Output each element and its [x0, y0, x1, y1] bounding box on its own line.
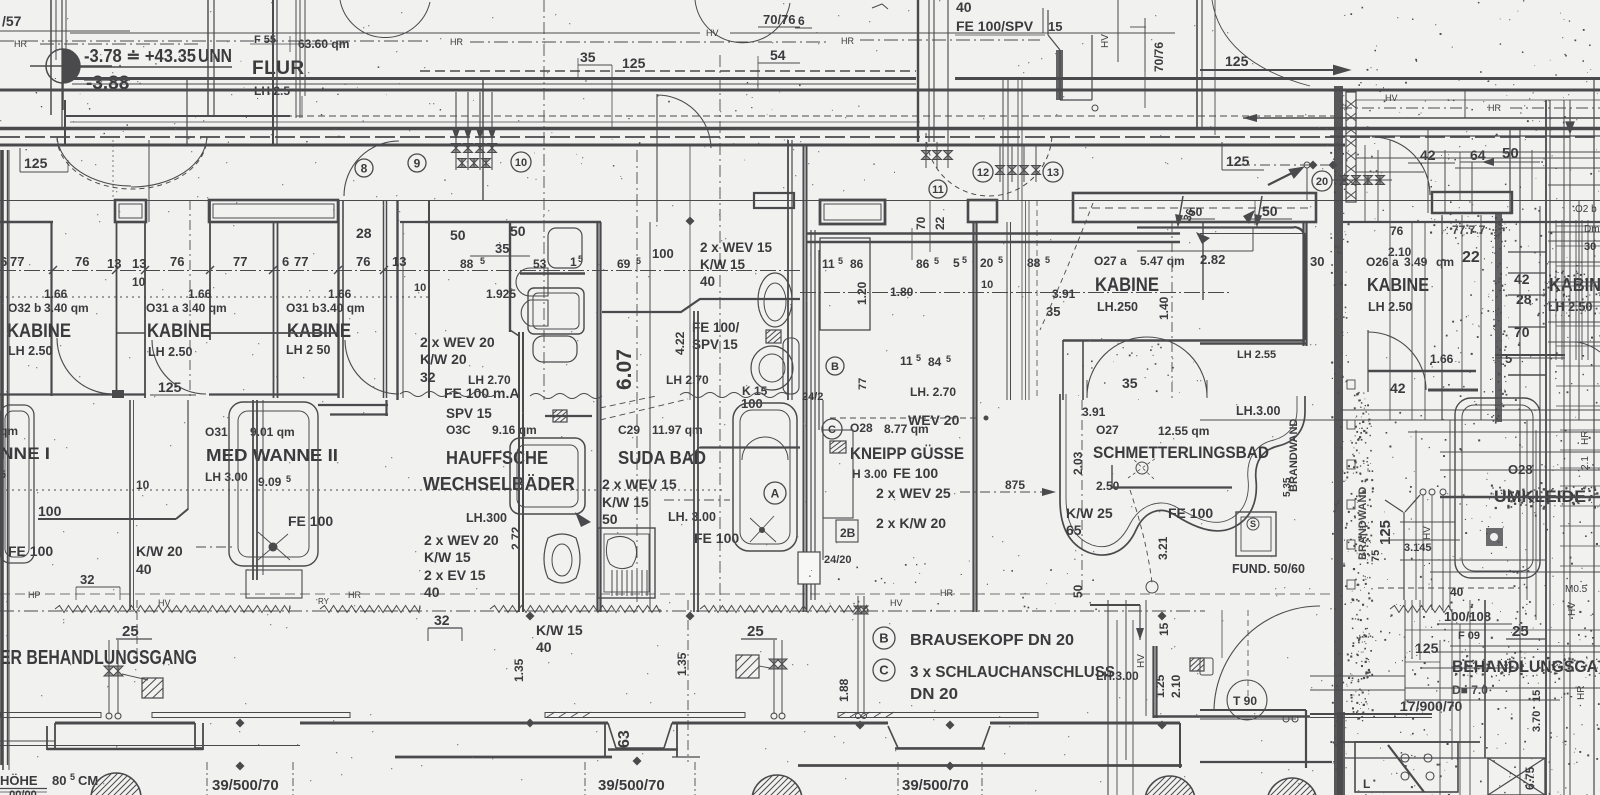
valve cluster x460 — [452, 144, 461, 153]
svg-text:LH.250: LH.250 — [1097, 300, 1138, 314]
svg-text:76: 76 — [170, 254, 184, 269]
thin lines bottom left — [0, 745, 300, 747]
svg-text:2.10: 2.10 — [1169, 674, 1183, 698]
svg-text:SPV 15: SPV 15 — [446, 406, 492, 421]
corridor north wall upper — [72, 77, 916, 80]
vertical x690 — [689, 145, 691, 400]
svg-text:WEV 20: WEV 20 — [908, 412, 960, 428]
dash y588 right — [1378, 587, 1520, 589]
hatch square M kneipp — [830, 441, 846, 453]
svg-text:B: B — [831, 361, 839, 373]
risers x1003-1022 — [1002, 78, 1004, 200]
wall line y200 — [0, 200, 1600, 202]
right wing mesh top2 — [1343, 221, 1600, 223]
svg-text:K/W 20: K/W 20 — [136, 543, 183, 559]
stub box far right — [1432, 192, 1512, 213]
shower grate — [611, 570, 613, 596]
door arc schmetterling — [1087, 337, 1207, 397]
riser x130 mid — [129, 400, 131, 610]
door arc corridor x657 — [657, 94, 711, 222]
svg-text:32: 32 — [80, 572, 94, 587]
svg-text:RY: RY — [318, 597, 330, 606]
svg-text:50: 50 — [1189, 205, 1203, 219]
svg-text:C: C — [879, 663, 889, 678]
svg-text:88: 88 — [460, 257, 474, 271]
shaft ref circle 12 — [973, 162, 993, 182]
wc hauffsche — [544, 534, 580, 583]
svg-text:10: 10 — [981, 279, 993, 291]
svg-text:35: 35 — [495, 241, 509, 256]
hatched column circles — [91, 773, 154, 795]
svg-text:O31 b: O31 b — [286, 301, 319, 315]
svg-text:qm: qm — [1436, 255, 1454, 269]
svg-text:2 x WEV 20: 2 x WEV 20 — [420, 334, 495, 350]
kabine mid walls below — [1063, 339, 1305, 341]
heavy joint segment left — [65, 115, 290, 117]
svg-text:125: 125 — [1377, 520, 1394, 545]
svg-text:3.91: 3.91 — [1052, 287, 1076, 301]
stub band kabine mid wide — [1073, 193, 1316, 222]
svg-text:88: 88 — [1027, 256, 1041, 270]
svg-text:K/W 15: K/W 15 — [602, 494, 649, 510]
corridor wall x597 — [596, 222, 598, 612]
pier x195 — [195, 723, 203, 750]
valve cluster x930 — [922, 151, 931, 160]
svg-text:125: 125 — [622, 55, 646, 71]
risers x1007 — [1006, 222, 1008, 400]
right wing mid speckle band — [1381, 401, 1600, 621]
svg-text:875: 875 — [1005, 478, 1025, 492]
partition pair x116 x145 — [116, 222, 118, 398]
partition pair x383 — [383, 200, 385, 398]
svg-text:12: 12 — [977, 167, 989, 179]
svg-text:C29: C29 — [618, 423, 640, 437]
svg-text:FE 100: FE 100 — [8, 543, 53, 559]
svg-text:64: 64 — [1470, 147, 1486, 163]
svg-text:50: 50 — [450, 227, 466, 243]
svg-text:3.40 qm: 3.40 qm — [320, 301, 365, 315]
svg-text:8: 8 — [361, 161, 368, 175]
svg-text:SCHMETTERLINGSBAD: SCHMETTERLINGSBAD — [1093, 444, 1269, 462]
kneipp west risers — [810, 230, 812, 600]
door arc right x1370 — [1372, 137, 1430, 195]
svg-text:M0.5: M0.5 — [1565, 584, 1588, 595]
svg-text:2.82: 2.82 — [1200, 252, 1225, 267]
wall x694 suda east — [693, 311, 695, 612]
svg-text:11: 11 — [900, 354, 913, 368]
pier x55 — [47, 723, 55, 750]
right wing extra verticals mid — [1415, 430, 1417, 600]
svg-text:76: 76 — [75, 254, 89, 269]
fund 50/60 box — [1236, 512, 1276, 556]
shaft ladder x1346 — [1346, 92, 1356, 202]
wechsel tub square — [510, 438, 585, 514]
svg-text:20: 20 — [1316, 176, 1328, 188]
wall riser pair left — [50, 0, 52, 115]
svg-text:70: 70 — [914, 216, 928, 230]
shaft ref circle 20 — [1312, 171, 1332, 191]
svg-text:2 x WEV 15: 2 x WEV 15 — [602, 476, 677, 492]
svg-text:HV: HV — [1422, 526, 1433, 540]
svg-text:2.72: 2.72 — [509, 526, 523, 550]
shaft wall x918 — [917, 0, 919, 142]
shaft ref circle 13 — [1043, 162, 1063, 182]
valves below x110 — [104, 666, 114, 676]
dim chain y270 kneipp — [800, 292, 1230, 294]
svg-text:5: 5 — [953, 256, 960, 270]
svg-text:KABINE: KABINE — [1367, 275, 1429, 295]
svg-text:9.16 qm: 9.16 qm — [492, 423, 537, 437]
kneipp row top wall double band — [806, 232, 1180, 234]
valves x775 — [769, 659, 779, 669]
svg-text:2 x WEV 25: 2 x WEV 25 — [876, 485, 951, 501]
svg-text:K/W 15: K/W 15 — [536, 622, 583, 638]
svg-text:5.47 qm: 5.47 qm — [1140, 254, 1185, 268]
dim chain line y270 — [0, 270, 400, 272]
shaft ref circle 8 — [355, 159, 373, 177]
svg-text:40: 40 — [424, 584, 440, 600]
svg-text:3.40 qm: 3.40 qm — [44, 301, 89, 315]
svg-text:FE 100/: FE 100/ — [692, 320, 740, 335]
lower wall line y765 — [798, 764, 1182, 767]
bottom right vertical cluster — [1107, 600, 1109, 795]
svg-text:FUND. 50/60: FUND. 50/60 — [1232, 562, 1305, 576]
svg-text:BRAUSEKOPF DN 20: BRAUSEKOPF DN 20 — [910, 632, 1074, 649]
svg-text:UNN: UNN — [198, 46, 232, 66]
svg-text:...00/00: ...00/00 — [0, 789, 37, 795]
svg-text:39/500/70: 39/500/70 — [212, 777, 279, 794]
svg-text:FE 100 m.A: FE 100 m.A — [444, 385, 519, 401]
svg-text:25: 25 — [1512, 623, 1529, 640]
svg-text:FE 100: FE 100 — [893, 465, 938, 481]
right wing tick x1465 — [1464, 90, 1466, 118]
partition x510 — [509, 222, 511, 332]
svg-text:K/W 15: K/W 15 — [424, 549, 471, 565]
riser pair x1197 — [1196, 0, 1198, 128]
dim line x1145 tail — [1144, 72, 1146, 108]
platform bottom right — [1200, 709, 1306, 711]
svg-text:40: 40 — [700, 274, 715, 289]
svg-text:O2 b: O2 b — [1575, 204, 1597, 215]
svg-text:1.66: 1.66 — [188, 287, 212, 301]
dashdot vertical x190 — [189, 200, 191, 400]
door arc far right — [1577, 342, 1600, 352]
dotted level line y297 — [0, 296, 430, 298]
svg-text:15: 15 — [1048, 19, 1062, 34]
svg-text:FE 100/SPV: FE 100/SPV — [956, 18, 1034, 34]
svg-text:70/76: 70/76 — [1152, 42, 1166, 72]
svg-text:3.21: 3.21 — [1156, 536, 1170, 560]
diag dashes bottom corridor — [600, 399, 688, 420]
svg-text:SUDA BAD: SUDA BAD — [618, 448, 706, 468]
washbasin pair x530 — [516, 268, 548, 296]
window sill hatched left part — [838, 712, 894, 717]
svg-text:80: 80 — [52, 773, 66, 788]
duct jog x1048 — [1048, 10, 1092, 100]
svg-text:BRANDWAND: BRANDWAND — [1357, 487, 1369, 560]
suda tub — [733, 403, 797, 551]
svg-text:HÖHE: HÖHE — [0, 773, 38, 788]
tub pipes vertical — [252, 400, 254, 580]
leader arrow to circle 20 — [1268, 168, 1302, 185]
svg-text:O27 a: O27 a — [1094, 254, 1127, 268]
shaft ref circle 11 — [929, 180, 947, 198]
svg-text:22: 22 — [1462, 249, 1480, 266]
shaft ref circle 10 — [511, 152, 531, 172]
dashdot vertical x544 — [543, 0, 545, 400]
corridor south wall mid — [0, 136, 1600, 138]
tub drain — [269, 543, 278, 552]
svg-text:FLUR: FLUR — [252, 58, 305, 79]
door arc corridor semicircle x990 dashed — [926, 133, 1052, 196]
svg-text:S: S — [1250, 519, 1256, 529]
svg-text:84: 84 — [928, 355, 942, 369]
svg-text:13: 13 — [107, 256, 121, 271]
x-cross box bottom right — [1488, 758, 1545, 795]
svg-text:125: 125 — [1415, 640, 1439, 656]
svg-text:54: 54 — [770, 47, 786, 63]
lower wall line y757 — [395, 756, 612, 759]
dividing dark wall x1339 brandwand — [1334, 86, 1343, 795]
pipe line HR top — [70, 32, 700, 34]
svg-text:1.40: 1.40 — [1157, 296, 1171, 320]
svg-text:30: 30 — [1584, 241, 1596, 253]
svg-text:HV: HV — [706, 28, 719, 38]
svg-text:2.03: 2.03 — [1071, 451, 1085, 475]
svg-text:53: 53 — [533, 257, 547, 271]
double door dashed arc corridor left — [57, 137, 207, 189]
svg-text:20: 20 — [980, 256, 994, 270]
tub small upper x548 — [548, 228, 582, 268]
kabine room bottom wall lines — [209, 332, 338, 334]
svg-text:28: 28 — [356, 225, 372, 241]
svg-text:L: L — [1363, 777, 1370, 791]
svg-text:6: 6 — [798, 14, 805, 28]
window sill rects — [0, 713, 101, 718]
svg-text:40: 40 — [536, 639, 552, 655]
y junction pipes right — [1385, 495, 1420, 600]
svg-text:LH. 3.00: LH. 3.00 — [668, 510, 716, 524]
riser cluster x208-300 top — [207, 0, 209, 116]
diamond nodes bottom — [236, 719, 245, 728]
dim line 100 heavy — [38, 518, 176, 520]
svg-text:2 x WEV 15: 2 x WEV 15 — [700, 240, 773, 255]
heavy shelf y273 — [520, 272, 585, 275]
svg-text:KABINE: KABINE — [7, 321, 71, 342]
dashed leader pool — [1130, 490, 1152, 583]
partition x51 — [50, 222, 52, 396]
door arcs KABINE rooms lower — [57, 338, 113, 394]
circle B ref — [826, 357, 844, 375]
svg-text:2 x K/W 20: 2 x K/W 20 — [876, 515, 946, 531]
right wing tub — [1455, 398, 1540, 578]
svg-text:5: 5 — [70, 772, 75, 782]
pipe line HR dashdot — [0, 40, 430, 42]
svg-text:WECHSELBÄDER: WECHSELBÄDER — [423, 474, 575, 494]
svg-text:HV: HV — [158, 598, 171, 608]
shaft ref circle 9 — [408, 154, 426, 172]
svg-text:5: 5 — [934, 256, 939, 266]
pipe pair x858 with circles — [857, 596, 859, 714]
door arc bottom right big — [1214, 606, 1320, 710]
benchmark level symbol — [30, 49, 112, 110]
svg-text:LH.3.00: LH.3.00 — [1236, 404, 1281, 418]
dark wall right bottom — [1337, 712, 1345, 795]
svg-text:3.91: 3.91 — [1082, 405, 1106, 419]
svg-text:6.07: 6.07 — [613, 349, 636, 390]
svg-text:9: 9 — [414, 156, 421, 170]
svg-text:15: 15 — [1157, 622, 1171, 636]
svg-text:32: 32 — [434, 612, 450, 628]
pool wall y487 — [1112, 486, 1232, 488]
partition x429 — [428, 200, 430, 398]
svg-text:1: 1 — [570, 255, 577, 269]
svg-text:24/2: 24/2 — [802, 391, 823, 403]
svg-text:HR: HR — [940, 588, 953, 598]
shower tub square x531 — [528, 288, 584, 334]
svg-text:1.35: 1.35 — [675, 652, 689, 676]
suda drain — [750, 516, 776, 542]
valve cluster x1010 — [996, 166, 1005, 175]
svg-text:2 x EV 15: 2 x EV 15 — [424, 567, 486, 583]
svg-text:77: 77 — [294, 254, 308, 269]
svg-text:6: 6 — [282, 254, 289, 269]
window reveal trapezoid x940 — [888, 726, 990, 748]
door jamb stub lines — [112, 140, 114, 200]
kneipp left boxes — [820, 238, 870, 330]
hatch square mid — [736, 655, 759, 678]
svg-text:40: 40 — [1450, 585, 1464, 599]
right wing top mesh horizontals — [1432, 151, 1600, 153]
svg-text:HR: HR — [450, 37, 463, 47]
FLUR east wall — [295, 0, 297, 118]
svg-text:10: 10 — [414, 282, 426, 294]
svg-text:50: 50 — [1071, 584, 1085, 598]
stub box x754 — [754, 193, 794, 208]
right wing top verticals — [1427, 130, 1429, 213]
left exterior wall heavy — [0, 150, 3, 765]
svg-text:35: 35 — [580, 49, 596, 65]
kabine 50 leader arrows — [1176, 196, 1183, 225]
corridor dashed band y71 — [420, 70, 916, 72]
svg-text:LH 3.00: LH 3.00 — [205, 470, 248, 484]
svg-text:5: 5 — [286, 474, 291, 484]
svg-text:K/W 15: K/W 15 — [700, 257, 746, 272]
svg-text:3.70: 3.70 — [1531, 711, 1543, 732]
svg-text:A: A — [771, 486, 780, 500]
shower tray below tub — [246, 570, 302, 598]
right wing mid extra horizontals — [1408, 431, 1600, 433]
kneipp east wall x973 — [972, 222, 974, 612]
kabine right west wall x1203 — [1202, 222, 1204, 300]
svg-text:1.20: 1.20 — [855, 281, 869, 305]
svg-text:LH. 2.70: LH. 2.70 — [910, 385, 956, 399]
svg-text:O28: O28 — [1508, 462, 1533, 477]
svg-text:K/W 25: K/W 25 — [1066, 505, 1113, 521]
dotted level y490 — [0, 489, 725, 491]
top cut arcs — [340, 0, 430, 38]
right wing lines — [1355, 99, 1600, 101]
window reveal trapezoid x640 — [608, 723, 672, 748]
svg-text:10: 10 — [515, 157, 527, 169]
pool drain circle — [1136, 462, 1148, 474]
svg-text:10: 10 — [132, 275, 146, 289]
kabine right east wall x1303 — [1302, 222, 1304, 346]
svg-text:KABINE: KABINE — [1095, 275, 1159, 296]
svg-text:LH 2.70: LH 2.70 — [666, 373, 709, 387]
leader dashed curve kneipp — [1040, 203, 1093, 330]
wavy break line y395 — [400, 392, 496, 397]
partition x210 — [209, 200, 211, 340]
verticals bottom right — [1404, 600, 1406, 705]
svg-text:1.35: 1.35 — [512, 658, 526, 682]
corridor wall x650 dashed — [649, 222, 651, 610]
riser arrows x456-492 — [453, 130, 460, 140]
leader curve top right — [1212, 0, 1310, 86]
svg-text:125: 125 — [24, 155, 48, 171]
svg-text:39/500/70: 39/500/70 — [902, 777, 969, 794]
svg-text:F 09: F 09 — [1458, 630, 1480, 642]
tub below x535 — [533, 336, 577, 362]
wanne1 tub — [0, 405, 34, 563]
svg-text:O31 a: O31 a — [146, 301, 179, 315]
svg-text:11.97 qm: 11.97 qm — [652, 423, 703, 437]
svg-text:76: 76 — [1390, 224, 1404, 238]
svg-text:1.25: 1.25 — [1153, 674, 1167, 698]
svg-text:35: 35 — [1122, 375, 1138, 391]
right wing heavy band y497 — [1440, 496, 1600, 498]
svg-text:50: 50 — [1262, 203, 1278, 219]
horizontals bottom right mesh — [1450, 645, 1600, 647]
small risers with circles — [1420, 489, 1426, 495]
kw20 leader dashdot — [196, 546, 232, 548]
global speckle noise — [1342, 0, 1600, 221]
svg-text:75: 75 — [1370, 550, 1382, 562]
svg-text:O31: O31 — [205, 425, 228, 439]
right wing pipe mesh — [1548, 231, 1600, 233]
right wing vertical walls — [1441, 215, 1443, 420]
svg-text:13: 13 — [132, 256, 146, 271]
shower tray x600 — [598, 528, 655, 598]
svg-text:77: 77 — [10, 254, 24, 269]
svg-text:24/20: 24/20 — [824, 554, 852, 566]
small tub right of wc2 — [783, 338, 799, 394]
svg-text:1.66: 1.66 — [44, 287, 68, 301]
dashdot x637 — [636, 150, 638, 612]
south wall segment x507 — [425, 221, 601, 224]
pipe pair x788 — [787, 140, 789, 400]
dashdot x720 — [719, 55, 721, 610]
right wing dense tick rows — [1556, 225, 1600, 227]
wall corner right lower — [1090, 604, 1140, 606]
far right room lines — [1548, 240, 1600, 242]
kneipp west wall x803 — [803, 145, 805, 612]
stub box kabine1 — [115, 200, 146, 222]
diamond nodes on hatch — [526, 612, 535, 621]
svg-text:11: 11 — [822, 257, 835, 271]
wall x520 hauffsche west — [518, 332, 520, 612]
svg-text:O3C: O3C — [446, 423, 471, 437]
riser x483 — [482, 78, 484, 200]
svg-text:25: 25 — [747, 623, 764, 640]
svg-text:KNEIPP GÜSSE: KNEIPP GÜSSE — [850, 444, 964, 463]
wall stub above x545 — [545, 415, 592, 417]
svg-text:9.09: 9.09 — [258, 475, 282, 489]
dashed box left of T90 — [1200, 658, 1213, 675]
svg-text:T 90: T 90 — [1233, 694, 1257, 708]
svg-text:HR: HR — [1488, 103, 1501, 113]
svg-text:HR: HR — [14, 39, 27, 49]
